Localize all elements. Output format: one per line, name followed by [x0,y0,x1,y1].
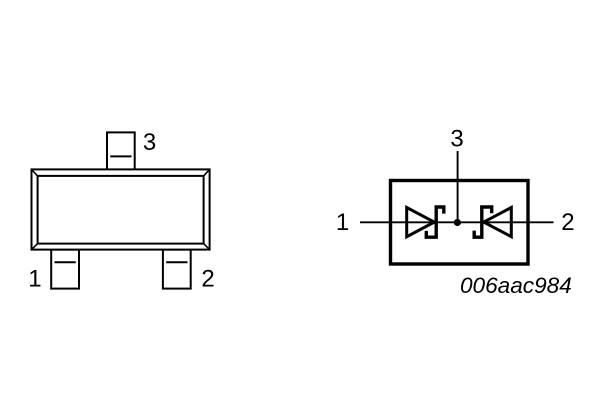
pin 2 lead tab (package bottom right) [163,250,191,289]
bevel diagonal top-left [32,169,38,176]
zener diode D2 (anode to pin 2) [474,207,511,237]
package body inner outline [38,176,204,244]
bevel diagonal top-right [204,169,210,176]
wire pin1 to pin2 (horizontal through both diodes) [360,221,554,223]
svg-text:3: 3 [143,129,156,156]
pin 2 lead mark [166,261,187,263]
symbol boundary box [391,181,529,265]
svg-text:3: 3 [450,125,463,152]
pin 3 lead tab (package top) [107,132,135,170]
svg-text:2: 2 [201,265,214,292]
svg-text:006aac984: 006aac984 [460,273,572,298]
pin 1 lead tab (package bottom left) [51,250,79,289]
pin 1 lead mark [55,261,76,263]
svg-text:1: 1 [336,209,349,236]
zener diode D1 (anode to pin 1) [407,207,444,237]
svg-text:2: 2 [561,209,574,236]
wire pin3 (vertical to junction) [457,151,459,222]
node junction dot [454,219,461,226]
bevel diagonal bottom-left [32,244,38,250]
svg-text:1: 1 [28,265,41,292]
package body outer outline (SOT-23 top view) [32,169,210,249]
pin 3 lead mark [110,155,131,157]
bevel diagonal bottom-right [204,244,210,250]
